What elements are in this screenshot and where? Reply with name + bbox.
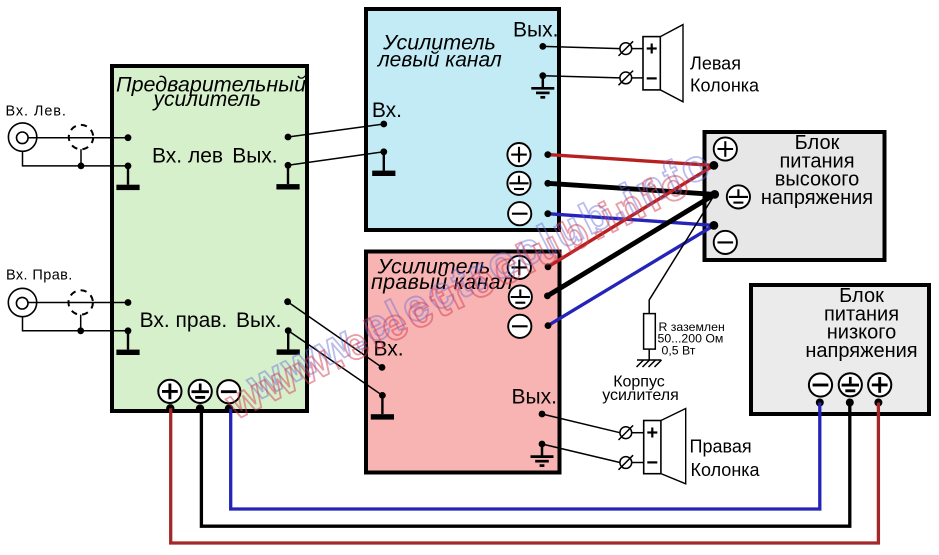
right amp labels	[374, 338, 557, 409]
node left amp -	[544, 210, 551, 217]
node HV +	[710, 161, 719, 170]
wire preamp - to LV - (blue)	[231, 403, 820, 510]
wire right input signal	[28, 302, 128, 304]
RCA connector right input	[8, 288, 36, 316]
chassis label	[602, 374, 679, 404]
terminal right amp -	[508, 315, 531, 338]
left speaker cone	[660, 25, 683, 102]
wire right amp + to HV (red)	[548, 165, 714, 266]
right speaker driver	[644, 421, 661, 474]
left speaker +	[647, 44, 657, 54]
node right amp +	[545, 263, 552, 270]
right speaker cone	[661, 409, 686, 484]
wire preamp to right amp signal	[288, 302, 382, 368]
LV power supply box	[751, 285, 929, 414]
node preamp out L signal	[285, 134, 292, 141]
terminal right amp +	[508, 256, 531, 279]
node HV gnd	[710, 190, 719, 199]
junction left input	[78, 163, 85, 170]
terminal HV -	[714, 231, 737, 254]
svg-text:левый канал: левый канал	[377, 49, 502, 72]
earth right amp out	[531, 444, 554, 466]
wire HV gnd to resistor	[649, 194, 715, 313]
wire resistor to earth	[648, 349, 650, 360]
resistor R	[644, 314, 656, 350]
preamp label Vx lev / Vyx	[140, 145, 282, 332]
node preamp in R signal	[125, 299, 132, 306]
right speaker -	[647, 461, 657, 463]
node preamp out R signal	[284, 298, 291, 305]
terminal left amp +	[507, 143, 530, 166]
svg-text:усилителя: усилителя	[602, 387, 679, 404]
terminal LV earth	[839, 373, 862, 396]
node right amp gnd	[544, 293, 551, 300]
node preamp + bottom	[166, 404, 174, 412]
svg-text:Вых.: Вых.	[236, 309, 281, 332]
left speaker -	[647, 77, 657, 79]
svg-text:Вх. Прав.: Вх. Прав.	[6, 268, 73, 284]
left amp title	[377, 31, 502, 72]
svg-text:Вых.: Вых.	[513, 19, 558, 42]
node right amp in signal	[379, 364, 386, 371]
node right amp in gnd	[379, 392, 386, 399]
node left amp gnd	[544, 180, 551, 187]
wire dashed circle stem right	[80, 315, 82, 331]
right speaker +	[647, 428, 657, 438]
node LV +	[874, 399, 882, 407]
junction right input	[77, 327, 84, 334]
terminal right amp earth	[509, 285, 532, 308]
wire connector to right speaker -	[632, 462, 645, 464]
wire preamp to right amp gnd	[288, 331, 382, 396]
wire preamp + to LV + (red)	[171, 403, 879, 544]
terminal LV -	[809, 373, 832, 396]
svg-text:напряжения: напряжения	[761, 187, 873, 209]
node left amp out signal	[539, 43, 546, 50]
connector right speaker +	[619, 425, 634, 440]
wire right amp out +	[542, 414, 620, 433]
node left amp out gnd	[539, 72, 546, 79]
connector right speaker -	[619, 455, 634, 470]
terminal HV +	[714, 137, 737, 160]
wire dashed circle stem left	[80, 149, 82, 166]
svg-text:Правая: Правая	[690, 437, 752, 457]
wire left input ground	[23, 151, 129, 166]
ground right amp in	[371, 395, 394, 419]
wire right amp out -	[542, 444, 620, 463]
wire connector to right speaker +	[632, 432, 645, 434]
right channel amp box	[366, 252, 560, 473]
HV PSU title	[761, 132, 873, 209]
ground preamp out R	[277, 331, 300, 355]
HV power supply box	[705, 132, 885, 260]
svg-text:Колонка: Колонка	[690, 75, 760, 95]
node preamp out L gnd	[285, 162, 292, 169]
ground left amp in	[372, 152, 395, 176]
wire right input ground	[23, 317, 129, 331]
wire connector to left speaker +	[632, 48, 644, 50]
ground preamp in R	[116, 331, 139, 355]
right amp title	[371, 255, 513, 295]
svg-text:Вх.: Вх.	[372, 99, 402, 122]
resistor label	[658, 320, 725, 358]
wire connector to left speaker -	[632, 77, 644, 79]
left speaker label	[690, 54, 760, 96]
svg-text:Вх. Лев.: Вх. Лев.	[6, 103, 67, 119]
wire left amp out +	[543, 46, 620, 48]
wire left amp gnd to HV (black)	[548, 183, 715, 194]
preamp box	[112, 66, 307, 411]
terminal preamp -	[217, 380, 240, 403]
node preamp out R gnd	[285, 327, 292, 334]
wire left amp out -	[543, 76, 620, 78]
svg-text:Вх. прав.: Вх. прав.	[140, 309, 228, 332]
svg-text:напряжения: напряжения	[805, 340, 917, 362]
terminal HV earth	[727, 185, 750, 208]
node preamp - bottom	[225, 404, 233, 412]
connector left speaker +	[619, 41, 634, 56]
wire left amp - to HV (blue)	[548, 214, 714, 226]
right speaker label	[690, 437, 761, 480]
svg-text:Вых.: Вых.	[512, 386, 557, 409]
wire preamp to left amp gnd	[288, 152, 384, 166]
node left amp in gnd	[380, 148, 387, 155]
terminal left amp earth	[507, 172, 530, 195]
ground preamp out L	[276, 165, 299, 189]
wire left amp + to HV (red)	[548, 155, 714, 166]
terminal preamp +	[158, 380, 181, 403]
wire preamp to left amp signal	[288, 124, 384, 137]
svg-text:усилитель: усилитель	[152, 88, 262, 111]
node left amp +	[544, 151, 551, 158]
terminal preamp earth	[189, 380, 212, 403]
node HV -	[710, 221, 719, 230]
chassis earth under resistor	[637, 360, 662, 367]
wire preamp gnd to LV gnd (black)	[201, 403, 849, 527]
node right amp out gnd	[539, 441, 546, 448]
left speaker driver	[643, 37, 660, 90]
node LV gnd	[846, 399, 854, 407]
svg-text:Колонка: Колонка	[691, 460, 761, 480]
LV PSU title	[805, 285, 917, 362]
node left amp in signal	[380, 121, 387, 128]
svg-text:Левая: Левая	[690, 54, 741, 74]
wire right amp gnd to HV (black)	[547, 194, 714, 296]
dashed circle left input	[69, 125, 93, 149]
node right amp -	[545, 322, 552, 329]
node preamp gnd bottom	[196, 404, 204, 412]
terminal LV +	[868, 373, 891, 396]
svg-text:0,5 Вт: 0,5 Вт	[662, 343, 696, 357]
left amp labels	[372, 19, 559, 122]
RCA connector left input	[8, 123, 36, 151]
terminal left amp -	[508, 202, 531, 225]
node preamp in R gnd	[125, 327, 132, 334]
preamp title	[116, 72, 306, 111]
earth left amp out	[531, 76, 554, 98]
svg-text:Вх. лев: Вх. лев	[152, 145, 223, 168]
wire left input signal	[28, 137, 128, 139]
svg-text:Вых.: Вых.	[232, 145, 277, 168]
left channel amp box	[366, 9, 559, 230]
wire right amp - to HV (blue)	[548, 225, 714, 325]
ground preamp in L	[116, 166, 139, 190]
node preamp in L gnd	[125, 163, 132, 170]
node preamp in L signal	[125, 134, 132, 141]
dashed circle right input	[69, 290, 93, 314]
connector left speaker -	[619, 71, 634, 86]
node LV -	[816, 399, 824, 407]
node right amp out signal	[539, 411, 546, 418]
